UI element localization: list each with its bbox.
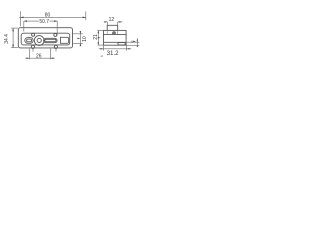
side view hole xyxy=(113,32,116,35)
dim 12 ext right xyxy=(117,22,119,25)
tick below hole bottom-right xyxy=(55,49,57,52)
arrow 12 right xyxy=(118,21,121,23)
arrow 34.4 bottom xyxy=(12,45,14,48)
dim 26 ext left xyxy=(28,49,30,60)
arrow 21 bottom xyxy=(98,42,100,45)
arrow 34.4 top xyxy=(12,28,14,31)
dim 31.2 line xyxy=(99,48,132,50)
svg-text:34.4: 34.4 xyxy=(4,34,10,44)
side view main rect xyxy=(104,30,127,45)
dim 12 line xyxy=(104,21,108,23)
big boss outer circle xyxy=(34,36,44,46)
side view top tab xyxy=(107,25,118,30)
dim 34.4 ext top xyxy=(11,27,18,29)
dim 4 line xyxy=(136,38,138,46)
hole bottom-left xyxy=(31,45,34,48)
arrow 21 top xyxy=(98,30,100,33)
arrow 80 left xyxy=(21,17,24,19)
dim 34.4 line xyxy=(12,28,14,48)
dim 50.7 ext left xyxy=(23,21,25,31)
dim 12 ext left xyxy=(106,22,108,25)
dim 50.7 line xyxy=(24,20,39,22)
arrow 50.7 right xyxy=(54,20,57,22)
arrow 4 leader xyxy=(133,41,136,43)
arrow 31.2 left xyxy=(101,48,104,50)
svg-text:31.2: 31.2 xyxy=(107,50,120,57)
arrowheads xyxy=(12,17,138,60)
hole top-right xyxy=(54,33,57,36)
dim 21 ext bottom xyxy=(97,44,103,46)
left slot inner xyxy=(27,39,32,42)
dim 10 ext bottom xyxy=(73,42,83,44)
svg-text:80: 80 xyxy=(45,13,51,19)
dim 80 ext left xyxy=(20,11,22,26)
dim 21 line xyxy=(97,30,99,45)
arrow 10 bottom xyxy=(80,43,82,46)
dim 31.2 ext right xyxy=(126,46,128,51)
arrow 80 right xyxy=(83,17,86,19)
dimensions xyxy=(11,11,139,59)
tab edge continuation left xyxy=(106,30,108,34)
svg-text:50.7: 50.7 xyxy=(39,19,49,25)
tick below hole bottom-left xyxy=(32,49,34,52)
dim texts xyxy=(4,13,133,60)
arrow 12 left xyxy=(105,21,108,23)
arrow 4 top xyxy=(137,40,138,42)
arrow 10 leader xyxy=(77,38,80,40)
dim 80 line xyxy=(19,16,86,18)
dim 26 line xyxy=(25,57,54,59)
dim 26 ext right xyxy=(49,49,51,60)
left slot outer xyxy=(25,38,33,44)
arrow 26 left xyxy=(27,57,30,59)
arrow 31.2 right xyxy=(127,48,130,50)
dim 34.4 ext bottom xyxy=(11,47,18,49)
arrow 21 leader xyxy=(98,37,101,39)
dim 80 ext right xyxy=(85,12,87,21)
svg-text:26: 26 xyxy=(36,54,42,60)
dim 31.2 ext left xyxy=(102,46,104,51)
big boss inner circle xyxy=(37,38,41,42)
right pocket xyxy=(60,37,68,43)
svg-text:10: 10 xyxy=(82,36,88,42)
dim 10 ext top xyxy=(73,33,83,35)
side view inner line lower xyxy=(104,41,127,43)
dim 4 ext top xyxy=(127,41,140,43)
arrow 50.7 left xyxy=(24,20,27,22)
svg-text:12: 12 xyxy=(109,17,115,23)
side view bottom pocket xyxy=(118,43,125,45)
top view outer body xyxy=(18,28,72,48)
arrow 31.2 leader xyxy=(100,55,103,57)
side view inner line upper xyxy=(104,33,127,35)
hole bottom-right xyxy=(54,45,57,48)
svg-text:21: 21 xyxy=(93,34,99,40)
dim 21 ext top xyxy=(97,29,103,31)
right slot outer xyxy=(44,38,58,42)
dim 10 line xyxy=(79,31,81,46)
arrow 4 bottom xyxy=(137,45,138,47)
top view inner channel xyxy=(21,33,69,45)
svg-text:4: 4 xyxy=(131,40,133,44)
tab edge continuation right xyxy=(117,30,119,34)
arrow 10 top xyxy=(80,31,82,34)
arrow 26 right xyxy=(50,57,53,59)
hole top-left xyxy=(32,33,35,36)
dim 4 ext bottom xyxy=(127,44,140,46)
right slot inner xyxy=(45,39,56,41)
dim 50.7 ext right xyxy=(56,21,58,35)
side view xyxy=(104,25,127,45)
